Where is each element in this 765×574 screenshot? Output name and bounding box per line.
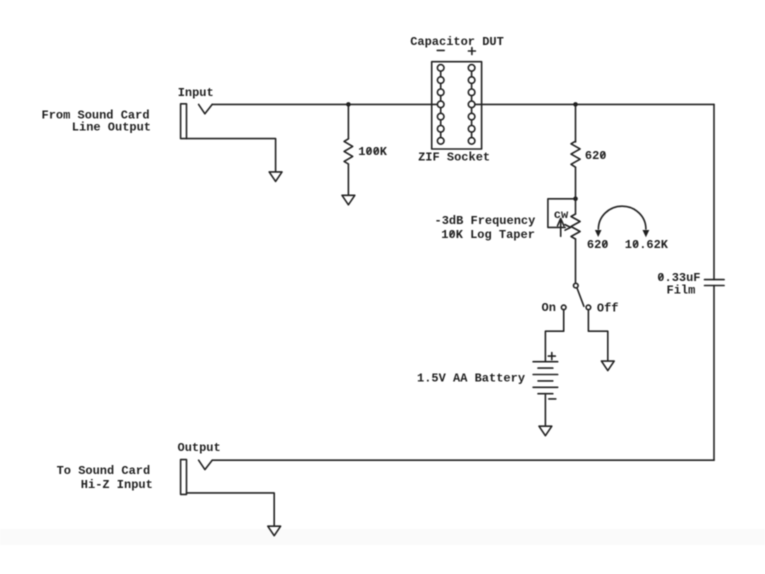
- node junction top rail / 620: [573, 102, 578, 107]
- svg-text:Off: Off: [597, 301, 619, 315]
- connector J2 output jack tip contact: [199, 460, 213, 469]
- wire output jack sleeve to ground: [187, 493, 275, 526]
- svg-text:Input: Input: [178, 86, 214, 100]
- svg-text:Film: Film: [667, 284, 696, 298]
- wire On terminal to battery: [545, 310, 563, 362]
- svg-text:620: 620: [587, 238, 609, 252]
- wire bottom rail: [212, 459, 714, 461]
- switch SW1 lever: [577, 288, 584, 306]
- svg-text:ZIF Socket: ZIF Socket: [418, 151, 490, 165]
- pin ZIF right column holes: [468, 65, 475, 145]
- svg-text:10.62K: 10.62K: [625, 238, 669, 252]
- potentiometer VR1 element: [571, 214, 580, 239]
- connector J1 input jack body: [181, 104, 187, 139]
- svg-text:-3dB Frequency: -3dB Frequency: [435, 214, 536, 228]
- ground R 100K: [342, 195, 355, 205]
- label ZIF minus polarity mark: [437, 49, 444, 51]
- wiper arrowhead of potentiometer: [565, 225, 571, 231]
- wire node to R1: [347, 104, 349, 138]
- switch SW1 On terminal: [561, 305, 566, 310]
- wire ZIF right pin column: [471, 68, 473, 141]
- wire top rail from input tip to right rail: [212, 103, 714, 105]
- svg-text:cw: cw: [554, 208, 569, 222]
- ground output jack sleeve: [268, 526, 281, 536]
- arrow cw direction indicator: [560, 221, 562, 237]
- wire node to R 620: [575, 104, 577, 142]
- wire battery to ground: [544, 394, 546, 427]
- ground input jack sleeve: [269, 172, 282, 182]
- wire ZIF right stub: [472, 103, 482, 105]
- svg-text:To Sound Card: To Sound Card: [57, 464, 151, 478]
- svg-text:Capacitor DUT: Capacitor DUT: [410, 35, 504, 49]
- wire Off terminal to ground: [588, 310, 607, 361]
- capacitor C1 0.33uF plates: [705, 279, 725, 281]
- svg-text:620: 620: [585, 149, 607, 163]
- switch SW1 common terminal: [574, 283, 579, 288]
- resistor R 620: [571, 141, 580, 167]
- label battery plus sign: [548, 355, 555, 357]
- ground Off terminal: [601, 361, 614, 371]
- svg-text:Hi-Z Input: Hi-Z Input: [81, 478, 153, 492]
- resistor R 100K: [344, 139, 353, 164]
- svg-text:On: On: [542, 301, 556, 315]
- wire wiper loop left: [548, 199, 576, 228]
- wire ZIF left stub: [432, 103, 441, 105]
- svg-text:10K Log Taper: 10K Log Taper: [441, 228, 535, 242]
- node junction pot top / wiper: [573, 197, 578, 202]
- label battery minus sign: [549, 398, 556, 400]
- wire ZIF left pin column: [440, 68, 442, 141]
- wire R1 to ground: [347, 164, 349, 195]
- wire right rail lower: [713, 286, 715, 461]
- connector J2 output jack body: [181, 460, 187, 495]
- svg-text:100K: 100K: [358, 145, 388, 159]
- switch SW1 Off terminal: [586, 305, 591, 310]
- node junction top rail / 100K: [346, 102, 351, 107]
- wire input jack sleeve to ground: [187, 139, 276, 172]
- wire R620 to pot node: [575, 167, 577, 199]
- wire pot node to pot element: [575, 199, 577, 214]
- connector J1 input jack tip contact: [199, 104, 213, 113]
- arrow curved resistance range: [598, 206, 646, 229]
- svg-text:1.5V AA Battery: 1.5V AA Battery: [417, 372, 525, 386]
- ground battery: [539, 426, 552, 436]
- battery BT1 plates: [533, 361, 558, 363]
- label ZIF plus polarity mark: [468, 50, 475, 52]
- label slashed zeros overlay: [367, 148, 662, 279]
- wire pot to switch: [575, 239, 577, 283]
- svg-text:Output: Output: [178, 441, 221, 455]
- svg-text:Line Output: Line Output: [72, 120, 151, 134]
- wire right rail upper: [713, 104, 715, 279]
- pin ZIF left column holes: [437, 65, 444, 145]
- socket ZIF body: [432, 62, 482, 149]
